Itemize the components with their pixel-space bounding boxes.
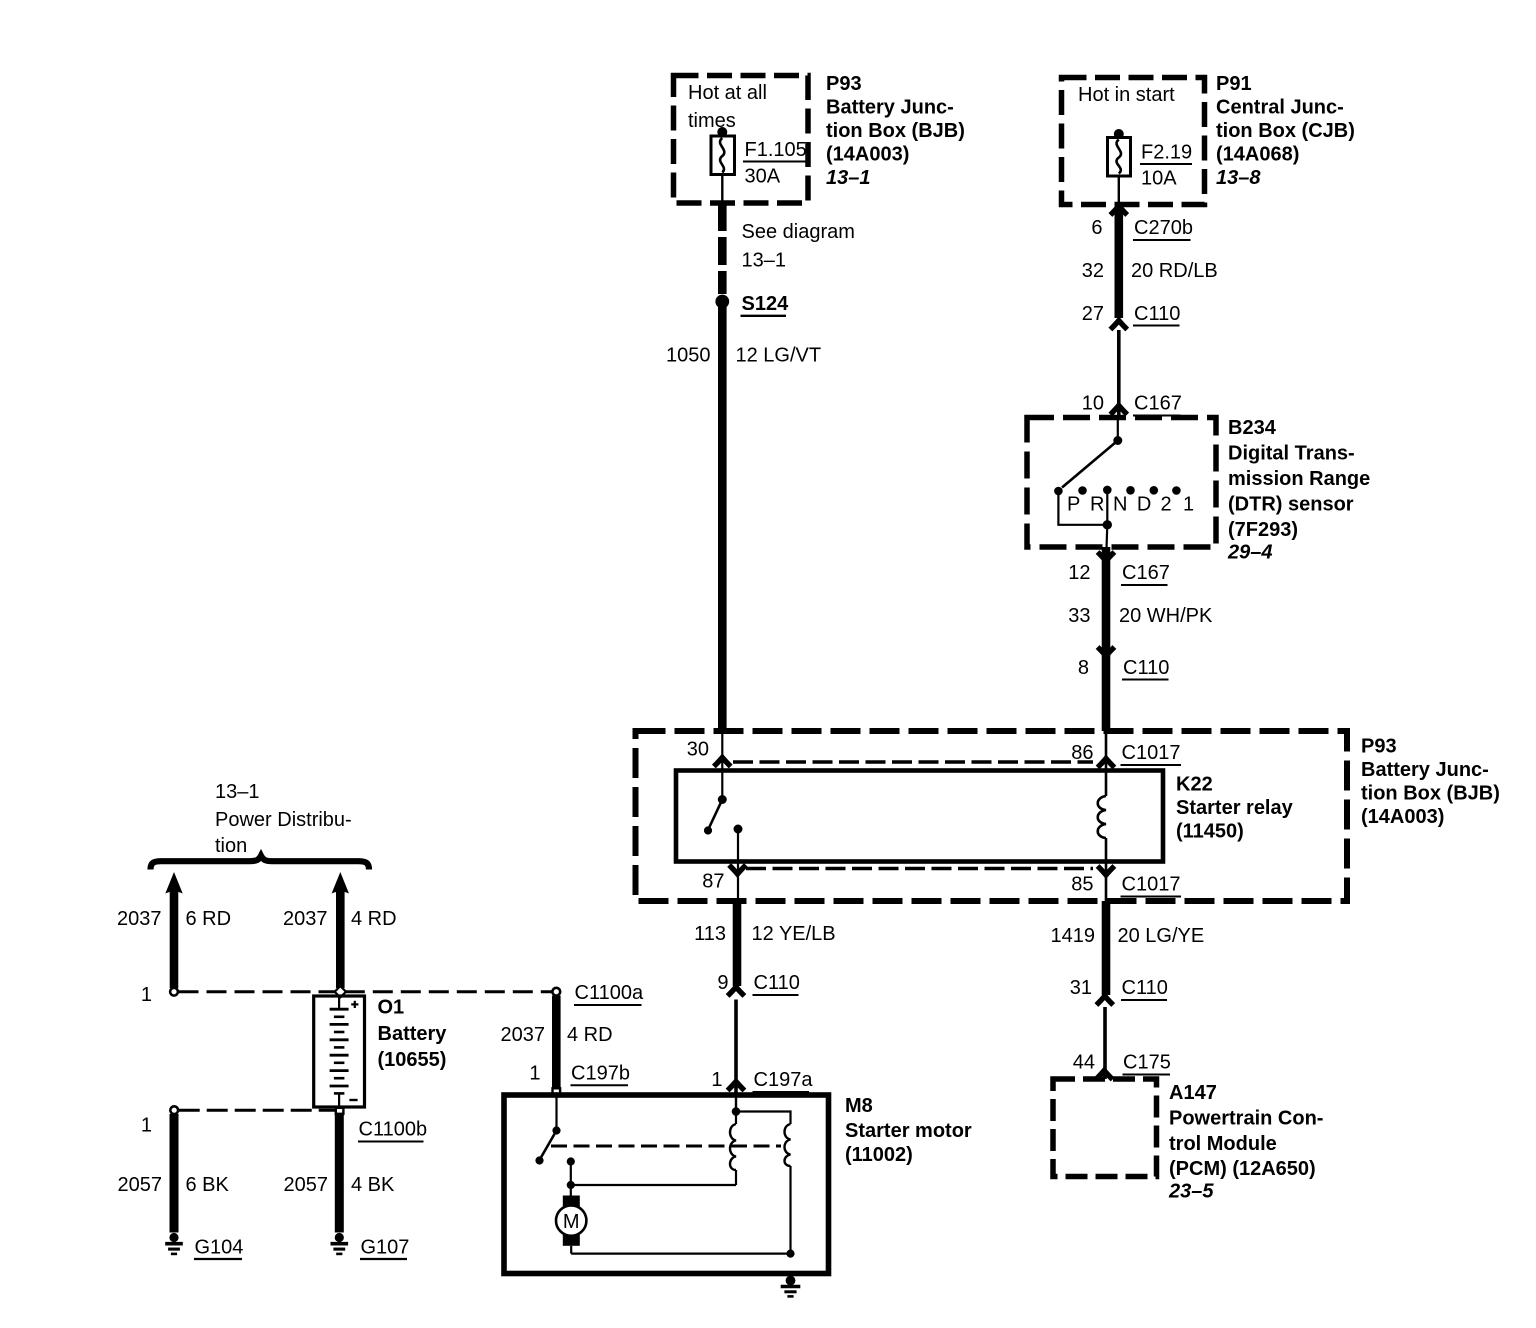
svg-text:29–4: 29–4 bbox=[1227, 542, 1273, 564]
svg-text:20 RD/LB: 20 RD/LB bbox=[1131, 260, 1218, 282]
svg-text:tion: tion bbox=[215, 835, 247, 857]
svg-text:Hot at all: Hot at all bbox=[688, 82, 767, 104]
svg-text:2037: 2037 bbox=[501, 1024, 546, 1046]
svg-text:87: 87 bbox=[702, 871, 724, 893]
svg-text:tion Box (BJB): tion Box (BJB) bbox=[1361, 783, 1500, 805]
svg-text:1: 1 bbox=[711, 1069, 722, 1091]
svg-text:1: 1 bbox=[141, 1115, 152, 1137]
svg-text:Starter motor: Starter motor bbox=[845, 1120, 972, 1142]
svg-text:6: 6 bbox=[1091, 217, 1102, 239]
svg-text:1419: 1419 bbox=[1051, 925, 1096, 947]
svg-text:F1.105: F1.105 bbox=[745, 139, 807, 161]
svg-text:(7F293): (7F293) bbox=[1228, 519, 1298, 541]
svg-text:33: 33 bbox=[1068, 605, 1090, 627]
svg-text:C110: C110 bbox=[754, 972, 800, 994]
svg-text:C1100b: C1100b bbox=[359, 1119, 428, 1141]
svg-text:1: 1 bbox=[529, 1063, 540, 1085]
svg-text:B234: B234 bbox=[1228, 417, 1277, 439]
svg-text:Powertrain Con-: Powertrain Con- bbox=[1169, 1108, 1323, 1130]
svg-text:Starter relay: Starter relay bbox=[1176, 797, 1294, 819]
svg-text:Hot in start: Hot in start bbox=[1078, 84, 1175, 106]
svg-text:C197a: C197a bbox=[754, 1069, 814, 1091]
svg-text:R: R bbox=[1090, 494, 1104, 516]
svg-text:A147: A147 bbox=[1169, 1082, 1217, 1104]
svg-text:8: 8 bbox=[1078, 657, 1089, 679]
svg-text:times: times bbox=[688, 110, 736, 132]
svg-text:31: 31 bbox=[1070, 977, 1092, 999]
svg-text:1050: 1050 bbox=[666, 345, 711, 367]
svg-text:20 LG/YE: 20 LG/YE bbox=[1118, 925, 1205, 947]
svg-text:86: 86 bbox=[1071, 742, 1093, 764]
svg-text:Battery Junc-: Battery Junc- bbox=[826, 97, 954, 119]
svg-text:C1100a: C1100a bbox=[575, 982, 644, 1004]
svg-text:2: 2 bbox=[1161, 494, 1172, 516]
svg-text:(11450): (11450) bbox=[1176, 821, 1244, 843]
svg-text:C110: C110 bbox=[1123, 657, 1169, 679]
svg-text:4 BK: 4 BK bbox=[351, 1174, 395, 1196]
svg-text:(DTR) sensor: (DTR) sensor bbox=[1228, 494, 1354, 516]
svg-text:(PCM) (12A650): (PCM) (12A650) bbox=[1169, 1158, 1316, 1180]
svg-text:2037: 2037 bbox=[117, 908, 162, 930]
svg-text:30A: 30A bbox=[745, 166, 781, 188]
svg-text:6 RD: 6 RD bbox=[186, 908, 232, 930]
svg-text:C167: C167 bbox=[1134, 393, 1182, 415]
svg-text:6 BK: 6 BK bbox=[186, 1174, 230, 1196]
svg-text:1: 1 bbox=[1183, 494, 1194, 516]
svg-text:G107: G107 bbox=[361, 1237, 410, 1259]
svg-text:Battery Junc-: Battery Junc- bbox=[1361, 759, 1489, 781]
svg-text:See diagram: See diagram bbox=[742, 221, 855, 243]
svg-text:P: P bbox=[1067, 494, 1080, 516]
svg-text:1: 1 bbox=[141, 984, 152, 1006]
svg-text:13–1: 13–1 bbox=[826, 167, 871, 189]
svg-text:23–5: 23–5 bbox=[1168, 1181, 1214, 1203]
svg-text:(14A068): (14A068) bbox=[1216, 144, 1299, 166]
svg-text:9: 9 bbox=[717, 972, 728, 994]
svg-text:13–8: 13–8 bbox=[1216, 167, 1261, 189]
svg-text:O1: O1 bbox=[378, 997, 405, 1019]
svg-text:113: 113 bbox=[694, 923, 726, 945]
svg-text:tion Box (BJB): tion Box (BJB) bbox=[826, 120, 965, 142]
svg-text:10A: 10A bbox=[1141, 168, 1177, 190]
svg-text:12 LG/VT: 12 LG/VT bbox=[736, 345, 822, 367]
svg-text:20 WH/PK: 20 WH/PK bbox=[1119, 605, 1213, 627]
svg-text:C1017: C1017 bbox=[1122, 742, 1181, 764]
svg-text:P91: P91 bbox=[1216, 73, 1252, 95]
svg-text:C1017: C1017 bbox=[1122, 874, 1181, 896]
svg-text:2037: 2037 bbox=[283, 908, 328, 930]
svg-text:M8: M8 bbox=[845, 1095, 873, 1117]
svg-text:F2.19: F2.19 bbox=[1141, 142, 1192, 164]
svg-text:C167: C167 bbox=[1122, 562, 1170, 584]
svg-text:C110: C110 bbox=[1122, 977, 1168, 999]
svg-text:12: 12 bbox=[1068, 562, 1090, 584]
svg-text:(11002): (11002) bbox=[845, 1144, 913, 1166]
svg-text:Central Junc-: Central Junc- bbox=[1216, 97, 1344, 119]
svg-text:13–1: 13–1 bbox=[742, 250, 787, 272]
svg-text:4 RD: 4 RD bbox=[351, 908, 397, 930]
svg-text:2057: 2057 bbox=[284, 1174, 329, 1196]
svg-text:13–1: 13–1 bbox=[215, 781, 260, 803]
svg-text:10: 10 bbox=[1082, 393, 1104, 415]
svg-text:P93: P93 bbox=[826, 73, 862, 95]
svg-text:S124: S124 bbox=[742, 293, 790, 315]
svg-text:12 YE/LB: 12 YE/LB bbox=[752, 923, 836, 945]
svg-text:Battery: Battery bbox=[378, 1023, 448, 1045]
svg-text:Digital Trans-: Digital Trans- bbox=[1228, 443, 1355, 465]
svg-text:30: 30 bbox=[687, 739, 709, 761]
svg-text:32: 32 bbox=[1082, 260, 1104, 282]
svg-text:P93: P93 bbox=[1361, 736, 1397, 758]
svg-text:C175: C175 bbox=[1123, 1052, 1171, 1074]
svg-text:K22: K22 bbox=[1176, 774, 1213, 796]
svg-text:27: 27 bbox=[1082, 303, 1104, 325]
svg-text:D: D bbox=[1137, 494, 1151, 516]
svg-text:mission Range: mission Range bbox=[1228, 468, 1370, 490]
svg-text:N: N bbox=[1113, 494, 1127, 516]
svg-text:G104: G104 bbox=[195, 1237, 244, 1259]
svg-text:Power Distribu-: Power Distribu- bbox=[215, 809, 352, 831]
svg-text:C197b: C197b bbox=[571, 1063, 630, 1085]
svg-text:85: 85 bbox=[1071, 874, 1093, 896]
svg-text:(14A003): (14A003) bbox=[826, 144, 909, 166]
svg-text:(10655): (10655) bbox=[378, 1049, 447, 1071]
svg-text:tion Box (CJB): tion Box (CJB) bbox=[1216, 120, 1355, 142]
svg-text:trol Module: trol Module bbox=[1169, 1133, 1277, 1155]
svg-text:4 RD: 4 RD bbox=[567, 1024, 613, 1046]
svg-text:(14A003): (14A003) bbox=[1361, 806, 1444, 828]
svg-text:M: M bbox=[563, 1211, 580, 1233]
svg-text:C110: C110 bbox=[1134, 303, 1180, 325]
svg-text:C270b: C270b bbox=[1134, 217, 1193, 239]
svg-text:2057: 2057 bbox=[118, 1174, 163, 1196]
svg-text:44: 44 bbox=[1073, 1052, 1095, 1074]
